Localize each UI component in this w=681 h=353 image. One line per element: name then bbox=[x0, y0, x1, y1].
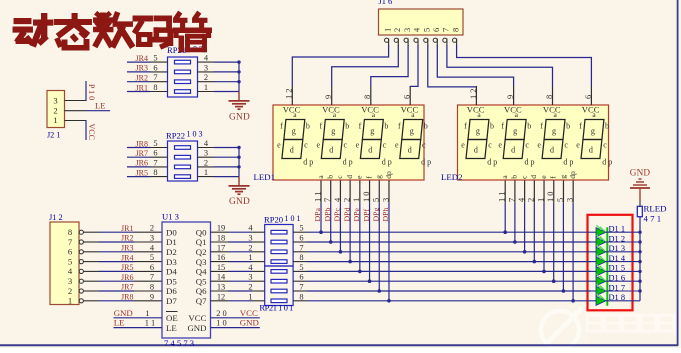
pin 6 of J16 (hook) bbox=[433, 38, 437, 46]
pin number 6 of U13 bbox=[150, 263, 154, 272]
label J16 bbox=[379, 0, 393, 6]
pin number 2 of RP21 bbox=[204, 73, 208, 82]
label RP21 value 103 bbox=[167, 45, 203, 56]
pin number 2 of RP20/RP21 bbox=[248, 283, 252, 292]
net label JR4 bbox=[121, 253, 133, 262]
resistor RP20-a bbox=[271, 230, 287, 234]
svg-text:e: e bbox=[498, 141, 502, 150]
junction bbox=[237, 80, 240, 83]
svg-text:d p: d p bbox=[563, 157, 573, 166]
pin 3 wire of J21 bbox=[65, 100, 87, 102]
svg-text:f: f bbox=[464, 122, 467, 131]
resistor RP22-d bbox=[175, 175, 191, 179]
junction bbox=[237, 146, 240, 149]
svg-text:JR7: JR7 bbox=[121, 283, 133, 292]
svg-text:d: d bbox=[408, 146, 412, 155]
svg-text:RLED: RLED bbox=[644, 204, 667, 214]
svg-text:1 1: 1 1 bbox=[498, 192, 507, 202]
svg-text:6: 6 bbox=[403, 95, 412, 99]
display LED2 box bbox=[458, 105, 609, 180]
svg-text:RP22: RP22 bbox=[166, 131, 185, 141]
pin 1 wire of J21 bbox=[65, 120, 87, 122]
svg-text:9: 9 bbox=[324, 95, 333, 99]
svg-text:b: b bbox=[326, 175, 335, 179]
pin number 3 of RP21 bbox=[204, 63, 208, 72]
pin number 12 of U13 bbox=[217, 292, 225, 301]
svg-text:5: 5 bbox=[372, 198, 381, 202]
svg-text:J1 6: J1 6 bbox=[379, 0, 393, 6]
svg-text:2: 2 bbox=[527, 198, 536, 202]
pin 8 of J12 bbox=[68, 227, 99, 237]
svg-text:e: e bbox=[461, 141, 465, 150]
svg-text:d: d bbox=[329, 146, 333, 155]
svg-text:b: b bbox=[527, 122, 531, 131]
svg-text:D2: D2 bbox=[166, 247, 177, 257]
svg-text:c: c bbox=[603, 141, 607, 150]
pin number 7 of RP pack (right) bbox=[299, 243, 303, 252]
wire RP22 right bbox=[198, 147, 240, 149]
diode D16 bbox=[591, 274, 640, 286]
svg-text:GND: GND bbox=[630, 168, 651, 178]
svg-text:b: b bbox=[306, 122, 310, 131]
pin number 20 of U13 bbox=[216, 309, 226, 318]
net label JR5 bbox=[121, 263, 133, 272]
pin number 14 of U13 bbox=[217, 273, 226, 282]
svg-text:LED2: LED2 bbox=[441, 172, 463, 182]
svg-text:8: 8 bbox=[153, 83, 157, 92]
svg-text:e: e bbox=[576, 141, 580, 150]
net P10 vertical wire bbox=[85, 81, 87, 101]
wire RP22 right bbox=[198, 156, 240, 158]
wire U13 Q6 to RP pin bbox=[211, 290, 265, 292]
net label GND (U13 OE) bbox=[114, 308, 133, 318]
svg-text:9: 9 bbox=[506, 95, 515, 99]
wire J16 pin6 to LED2 VCC pin 9 bbox=[437, 45, 513, 86]
svg-text:8: 8 bbox=[363, 95, 372, 99]
wire segment f drop from LED2 to row 6 bbox=[552, 203, 556, 283]
svg-text:3: 3 bbox=[248, 234, 252, 243]
pin number 4 of RP21 bbox=[204, 54, 209, 63]
wire segment d drop from LED2 to row 4 bbox=[533, 203, 537, 264]
pin number 1 of RP20/RP21 bbox=[248, 292, 252, 301]
segment pin e (pin 1) of LED1 bbox=[352, 175, 363, 203]
svg-text:5: 5 bbox=[153, 54, 157, 63]
wire RP21 gnd bus bbox=[238, 62, 240, 91]
label RP22 value 103 bbox=[166, 130, 203, 141]
pin number 4 of U13 bbox=[150, 243, 155, 252]
resistor RP21-c bbox=[175, 80, 191, 84]
diode D15 bbox=[591, 264, 640, 276]
svg-text:3: 3 bbox=[248, 273, 252, 282]
pin number 6 of RP pack (right) bbox=[299, 273, 303, 282]
svg-text:e: e bbox=[537, 141, 541, 150]
svg-text:Q2: Q2 bbox=[196, 247, 207, 257]
pin 5 of J16 (hook) bbox=[424, 38, 428, 46]
svg-text:JR3: JR3 bbox=[121, 244, 133, 253]
wire segment row 2 bbox=[293, 241, 591, 243]
connector J21 bbox=[47, 91, 65, 128]
svg-text:1: 1 bbox=[53, 115, 57, 125]
label D17 bbox=[609, 283, 626, 292]
svg-text:2 0: 2 0 bbox=[216, 309, 226, 318]
net label DPc bbox=[333, 208, 342, 222]
net label P10 bbox=[87, 84, 96, 100]
diode D18 bbox=[591, 294, 640, 306]
svg-text:J2 1: J2 1 bbox=[47, 131, 60, 140]
svg-text:JR4: JR4 bbox=[121, 253, 133, 262]
pin number 5 of J16 bbox=[423, 28, 432, 32]
svg-text:5: 5 bbox=[150, 253, 154, 262]
svg-text:d: d bbox=[550, 146, 554, 155]
wire U13 Q5 to RP pin bbox=[211, 280, 265, 282]
label D12 bbox=[609, 234, 626, 243]
label LED2 bbox=[441, 172, 463, 182]
ground GND (RLED) bbox=[630, 168, 651, 200]
svg-text:D1: D1 bbox=[166, 237, 177, 247]
svg-text:1: 1 bbox=[383, 28, 392, 32]
svg-text:GND: GND bbox=[114, 308, 133, 318]
label J12 bbox=[49, 213, 63, 222]
wire U13 OE to GND (pin 1) bbox=[114, 317, 163, 319]
pin number 1 of RP22 bbox=[204, 168, 208, 177]
svg-text:2: 2 bbox=[204, 73, 208, 82]
net label JR2 bbox=[136, 74, 148, 83]
svg-text:7: 7 bbox=[153, 158, 157, 167]
resistor RP21-d bbox=[271, 299, 287, 303]
VCC pin of LED1 digit 3 (pin 8) bbox=[363, 86, 372, 105]
wire U13 GND (pin 10) bbox=[211, 327, 260, 329]
wire net JR2 (left) bbox=[127, 81, 168, 83]
svg-text:2: 2 bbox=[68, 286, 72, 296]
pin number 8 of U13 bbox=[150, 283, 154, 292]
svg-text:b: b bbox=[566, 122, 570, 131]
net label DPd bbox=[342, 208, 351, 222]
svg-text:b: b bbox=[424, 122, 428, 131]
svg-text:g: g bbox=[552, 127, 556, 136]
svg-text:1 1: 1 1 bbox=[313, 192, 322, 202]
wire segment g drop from LED2 to row 7 bbox=[562, 203, 566, 293]
svg-text:2: 2 bbox=[204, 158, 208, 167]
wire segment h drop from LED2 to row 8 bbox=[571, 203, 575, 303]
pin number 2 of U13 bbox=[150, 224, 154, 233]
pin number 1 of J16 bbox=[383, 28, 392, 32]
svg-text:VCC: VCC bbox=[322, 104, 340, 114]
resistor pack RP21 (bottom) box bbox=[265, 266, 293, 306]
svg-text:8: 8 bbox=[545, 95, 554, 99]
svg-text:Q5: Q5 bbox=[196, 276, 207, 286]
svg-text:d p: d p bbox=[525, 157, 535, 166]
pin 5 of J12 bbox=[68, 256, 99, 266]
svg-text:14: 14 bbox=[217, 273, 226, 282]
svg-text:f: f bbox=[319, 122, 322, 131]
svg-text:d p: d p bbox=[602, 157, 612, 166]
pin 7 of J16 (hook) bbox=[443, 38, 447, 46]
svg-text:f: f bbox=[501, 122, 504, 131]
label D14 bbox=[609, 254, 626, 263]
net label DPg bbox=[371, 208, 380, 222]
svg-text:f: f bbox=[398, 122, 401, 131]
svg-text:1 0 1: 1 0 1 bbox=[285, 214, 301, 223]
net label JR1 bbox=[136, 83, 148, 92]
net label JR6 bbox=[121, 273, 133, 282]
svg-text:f: f bbox=[359, 122, 362, 131]
svg-text:Q6: Q6 bbox=[196, 286, 207, 296]
svg-text:d: d bbox=[290, 146, 294, 155]
pin 7 of J12 bbox=[68, 237, 99, 247]
svg-text:g: g bbox=[476, 127, 480, 136]
svg-text:c: c bbox=[304, 141, 308, 150]
pin number 7 of U13 bbox=[150, 273, 154, 282]
segment pin a (pin 1 1) of LED2 bbox=[498, 175, 509, 203]
wire J16 pin1 to LED1 VCC pin 12 bbox=[292, 45, 388, 86]
svg-text:JR8: JR8 bbox=[136, 139, 148, 148]
svg-text:6: 6 bbox=[68, 247, 73, 257]
digit 2 of LED2 bbox=[498, 104, 534, 166]
svg-text:d: d bbox=[474, 146, 478, 155]
segment pin g (pin 5) of LED1 bbox=[372, 175, 383, 203]
svg-text:9: 9 bbox=[150, 292, 154, 301]
svg-text:VCC: VCC bbox=[87, 124, 96, 140]
wire U13 Q0 to RP pin bbox=[211, 231, 265, 233]
svg-text:VCC: VCC bbox=[283, 104, 301, 114]
label RP21 value 101 (bottom) bbox=[259, 303, 293, 313]
wire segment a drop from LED2 to row 1 bbox=[503, 203, 507, 234]
svg-text:7: 7 bbox=[323, 198, 332, 202]
svg-text:P 1 0: P 1 0 bbox=[87, 84, 96, 100]
wire RP21 right bbox=[198, 91, 240, 93]
label U13 bbox=[162, 212, 179, 222]
net label DPe bbox=[352, 208, 361, 222]
junction bbox=[237, 156, 240, 159]
resistor RP22-c bbox=[175, 165, 191, 169]
svg-text:D1 6: D1 6 bbox=[609, 274, 626, 283]
segment pin c (pin 4) of LED2 bbox=[517, 175, 528, 203]
svg-text:g: g bbox=[374, 175, 383, 179]
resistor RP20-c bbox=[271, 250, 287, 254]
svg-text:VCC: VCC bbox=[504, 104, 522, 114]
wire segment c drop from LED2 to row 3 bbox=[523, 203, 527, 254]
resistor RP21-a bbox=[271, 270, 287, 274]
net label JR7 bbox=[121, 283, 133, 292]
svg-text:18: 18 bbox=[217, 234, 225, 243]
svg-text:2: 2 bbox=[248, 243, 252, 252]
pin number 1 of RP20/RP21 bbox=[248, 253, 252, 262]
svg-text:D1 4: D1 4 bbox=[609, 254, 626, 263]
wire segment row 3 bbox=[293, 251, 591, 253]
pin number 4 of J16 bbox=[413, 27, 422, 32]
svg-text:D1 7: D1 7 bbox=[609, 283, 626, 292]
diode D11 bbox=[591, 225, 640, 237]
diode D17 bbox=[591, 284, 640, 296]
wire segment b drop from LED2 to row 2 bbox=[513, 203, 517, 244]
svg-text:d p: d p bbox=[487, 157, 497, 166]
svg-text:JR2: JR2 bbox=[121, 234, 133, 243]
pin number 8 of RP21 bbox=[153, 83, 157, 92]
wire segment row 8 bbox=[293, 300, 591, 302]
wire segment row 6 bbox=[293, 280, 591, 282]
svg-text:b: b bbox=[605, 122, 609, 131]
svg-text:3: 3 bbox=[53, 96, 57, 106]
label J21 bbox=[47, 131, 60, 140]
wire RP21 right bbox=[198, 81, 240, 83]
svg-text:d p: d p bbox=[303, 157, 313, 166]
wire RLED to LED cathode bus bbox=[639, 217, 641, 301]
svg-text:d p: d p bbox=[382, 157, 392, 166]
wire net JR6 (J12 to U13) bbox=[99, 280, 162, 282]
wire U13 Q3 to RP pin bbox=[211, 261, 265, 263]
pin number 8 of RP22 bbox=[153, 168, 157, 177]
pin number 6 of RP21 bbox=[153, 63, 157, 72]
svg-text:Q3: Q3 bbox=[196, 257, 207, 267]
wire RP22 gnd bus bbox=[238, 148, 240, 177]
label LED1 bbox=[254, 172, 276, 182]
svg-text:1 2: 1 2 bbox=[285, 89, 294, 99]
svg-text:13: 13 bbox=[217, 283, 225, 292]
svg-text:4: 4 bbox=[68, 266, 73, 276]
pin number 7 of J16 bbox=[442, 28, 451, 32]
segment pin c (pin 4) of LED1 bbox=[333, 175, 344, 203]
svg-text:3: 3 bbox=[381, 198, 390, 202]
wire DPa drop from LED1 to row 1 bbox=[319, 203, 323, 234]
svg-text:4 7 1: 4 7 1 bbox=[644, 214, 662, 224]
digit 4 of LED2 bbox=[576, 104, 612, 166]
svg-text:2: 2 bbox=[393, 28, 402, 32]
svg-text:7: 7 bbox=[442, 28, 451, 32]
pin number 3 of RP20/RP21 bbox=[248, 273, 252, 282]
svg-text:3: 3 bbox=[204, 149, 208, 158]
pin number 4 of RP22 bbox=[204, 139, 209, 148]
pin number 3 of RP20/RP21 bbox=[248, 234, 252, 243]
svg-text:RP21 1 0 1: RP21 1 0 1 bbox=[259, 303, 293, 313]
svg-text:d: d bbox=[589, 146, 593, 155]
svg-text:c: c bbox=[525, 141, 529, 150]
svg-text:6: 6 bbox=[150, 263, 154, 272]
wire DPg drop from LED1 to row 7 bbox=[377, 203, 381, 293]
svg-text:VCC: VCC bbox=[543, 104, 561, 114]
svg-text:JR7: JR7 bbox=[136, 149, 148, 158]
wire net JR1 (left) bbox=[127, 91, 168, 93]
wire J16 pin8 to LED2 VCC pin 6 bbox=[457, 45, 592, 86]
svg-text:3: 3 bbox=[68, 276, 72, 286]
svg-text:VCC: VCC bbox=[361, 104, 379, 114]
svg-text:1 0 3: 1 0 3 bbox=[187, 130, 203, 139]
net label DPb bbox=[323, 208, 332, 222]
junction on cathode bus bbox=[638, 231, 641, 234]
wire segment e drop from LED2 to row 5 bbox=[542, 203, 546, 274]
svg-text:1 0: 1 0 bbox=[362, 192, 371, 202]
svg-text:dp: dp bbox=[568, 171, 577, 179]
wire U13 VCC (pin 20) bbox=[211, 317, 260, 319]
resistor pack RP21 box bbox=[168, 57, 198, 97]
pin number 11 of U13 bbox=[145, 319, 155, 328]
segment pin dp (pin 3) of LED1 bbox=[381, 171, 392, 203]
svg-text:3: 3 bbox=[204, 63, 208, 72]
wire U13 LE (pin 11) bbox=[114, 327, 163, 329]
VCC pin of LED2 digit 4 (pin 6) bbox=[584, 86, 593, 105]
svg-text:OE: OE bbox=[166, 313, 178, 323]
pin 3 of J12 bbox=[68, 276, 99, 286]
svg-text:7: 7 bbox=[299, 243, 303, 252]
svg-text:7: 7 bbox=[150, 273, 154, 282]
svg-text:RP20: RP20 bbox=[264, 215, 283, 225]
resistor RP20-b bbox=[271, 240, 287, 244]
pin number 16 of U13 bbox=[217, 253, 225, 262]
svg-text:8: 8 bbox=[299, 253, 303, 262]
svg-text:6: 6 bbox=[299, 234, 303, 243]
svg-text:1: 1 bbox=[536, 198, 545, 202]
svg-text:6: 6 bbox=[432, 28, 441, 32]
svg-text:GND: GND bbox=[240, 318, 259, 328]
svg-text:JR6: JR6 bbox=[121, 273, 133, 282]
svg-text:D6: D6 bbox=[166, 286, 177, 296]
label D16 bbox=[609, 274, 626, 283]
svg-text:1: 1 bbox=[204, 168, 208, 177]
pin number 17 of U13 bbox=[217, 243, 225, 252]
resistor RP21-d bbox=[175, 90, 191, 94]
svg-text:Q7: Q7 bbox=[196, 296, 207, 306]
svg-text:1: 1 bbox=[248, 253, 252, 262]
resistor pack RP20 box bbox=[265, 225, 293, 267]
svg-text:f: f bbox=[579, 122, 582, 131]
svg-text:3: 3 bbox=[403, 28, 412, 32]
net label GND (U13 pin10) bbox=[240, 318, 259, 328]
pin number 4 of RP20/RP21 bbox=[248, 263, 253, 272]
svg-text:g: g bbox=[331, 127, 335, 136]
pin number 7 of RP pack (right) bbox=[299, 283, 303, 292]
wire segment row 7 bbox=[293, 290, 591, 292]
net label DPf bbox=[362, 209, 371, 222]
svg-text:D7: D7 bbox=[166, 296, 177, 306]
svg-text:2: 2 bbox=[53, 105, 57, 115]
pin number 9 of U13 bbox=[150, 292, 154, 301]
junction on cathode bus bbox=[638, 280, 641, 283]
pin number 18 of U13 bbox=[217, 234, 225, 243]
svg-text:g: g bbox=[558, 175, 567, 179]
pin 1 of J16 (hook) bbox=[385, 38, 389, 46]
wire J16 pin5 to LED2 VCC pin 12 bbox=[428, 45, 477, 87]
wire DPd drop from LED1 to row 4 bbox=[348, 203, 352, 264]
svg-text:6: 6 bbox=[299, 273, 303, 282]
wire net JR6 (left) bbox=[127, 166, 168, 168]
svg-text:VCC: VCC bbox=[401, 104, 419, 114]
wire net JR5 (J12 to U13) bbox=[99, 270, 162, 272]
wire J16 pin3 to LED1 VCC pin 8 bbox=[371, 45, 408, 86]
svg-text:D1 2: D1 2 bbox=[609, 234, 626, 243]
junction on cathode bus bbox=[638, 240, 641, 243]
wire net JR4 (left) bbox=[127, 61, 168, 63]
svg-text:6: 6 bbox=[153, 149, 157, 158]
pin number 6 of RP pack (right) bbox=[299, 234, 303, 243]
pin number 5 of RP pack (right) bbox=[299, 224, 303, 233]
title text 动态数码管 bbox=[13, 11, 212, 52]
diode D13 bbox=[591, 245, 640, 257]
wire segment row 5 bbox=[293, 270, 591, 272]
svg-text:JR5: JR5 bbox=[136, 168, 148, 177]
svg-text:LE: LE bbox=[166, 323, 177, 333]
svg-text:GND: GND bbox=[229, 112, 250, 122]
segment pin b (pin 7) of LED2 bbox=[507, 175, 518, 203]
svg-text:3: 3 bbox=[566, 198, 575, 202]
svg-text:1 2: 1 2 bbox=[469, 89, 478, 99]
pin 2 of J12 bbox=[68, 286, 99, 296]
net label VCC (J21) bbox=[87, 124, 96, 140]
svg-text:d: d bbox=[529, 175, 538, 179]
svg-text:16: 16 bbox=[217, 253, 225, 262]
segment pin f (pin 1 0) of LED2 bbox=[546, 176, 557, 203]
svg-text:g: g bbox=[292, 127, 296, 136]
pin number 5 of RP21 bbox=[153, 54, 157, 63]
net label JR7 bbox=[136, 149, 148, 158]
